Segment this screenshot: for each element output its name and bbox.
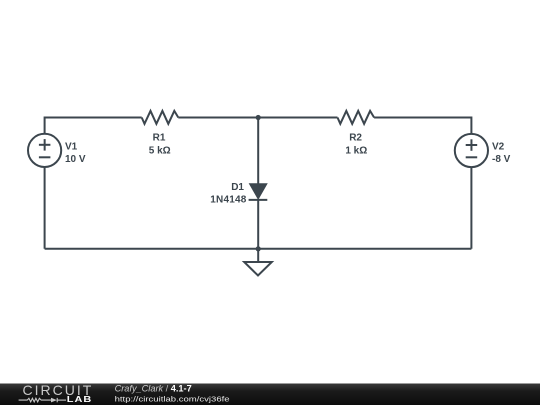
svg-text:-8 V: -8 V — [492, 154, 511, 165]
wire bottom rail — [45, 248, 472, 250]
ground — [244, 262, 272, 276]
svg-text:http://circuitlab.com/cvj36fe: http://circuitlab.com/cvj36fe — [115, 394, 230, 403]
wire node A to D1 anode — [257, 118, 259, 184]
diode D1 — [249, 184, 268, 200]
wire node B to ground — [257, 249, 259, 262]
wire R2 to V2 top — [374, 118, 471, 135]
node B junction dot — [256, 246, 261, 251]
svg-text:1 kΩ: 1 kΩ — [345, 145, 367, 156]
resistor R2 — [338, 111, 375, 124]
svg-text:LAB: LAB — [67, 395, 93, 404]
footer bar — [0, 384, 540, 405]
svg-text:5 kΩ: 5 kΩ — [149, 145, 171, 156]
wire node A to R2 — [258, 117, 337, 119]
svg-text:D1: D1 — [231, 182, 244, 193]
resistor R1 — [142, 111, 179, 124]
CircuitLab logo diode glyph — [51, 398, 57, 403]
wire R1 to node A — [178, 117, 258, 119]
svg-text:V2: V2 — [492, 141, 505, 152]
svg-text:10 V: 10 V — [65, 154, 86, 165]
voltage source V1 — [28, 134, 61, 167]
wire D1 cathode to node B — [257, 200, 259, 249]
CircuitLab logo schematic line — [19, 398, 66, 402]
wire V2 bottom to bottom-right corner — [470, 167, 472, 249]
svg-text:Crafy_Clark / 4.1-7: Crafy_Clark / 4.1-7 — [115, 383, 192, 393]
node A junction dot — [256, 115, 261, 120]
wire top-left: V1 top to R1 — [45, 118, 142, 134]
svg-text:R2: R2 — [349, 133, 362, 144]
svg-text:R1: R1 — [153, 133, 166, 144]
voltage source V2 — [455, 134, 488, 167]
svg-text:1N4148: 1N4148 — [210, 195, 246, 206]
wire V1 bottom to bottom-left corner — [44, 167, 46, 249]
svg-text:V1: V1 — [65, 141, 78, 152]
